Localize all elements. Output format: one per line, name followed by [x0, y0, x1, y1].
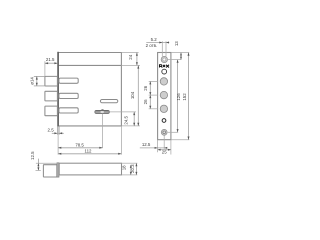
- svg-text:26: 26: [143, 85, 148, 90]
- svg-text:104: 104: [130, 91, 135, 99]
- svg-text:18: 18: [122, 165, 127, 170]
- svg-text:126: 126: [176, 93, 181, 101]
- svg-text:12.5: 12.5: [30, 151, 35, 160]
- svg-text:12.5: 12.5: [142, 142, 151, 147]
- svg-text:25: 25: [162, 149, 167, 154]
- svg-text:24: 24: [128, 54, 133, 59]
- svg-text:13: 13: [174, 41, 179, 46]
- svg-text:26: 26: [143, 99, 148, 104]
- svg-text:112: 112: [85, 148, 93, 153]
- svg-text:ø14: ø14: [29, 77, 34, 85]
- svg-text:5.2: 5.2: [151, 37, 158, 42]
- svg-text:24.5: 24.5: [123, 115, 128, 124]
- svg-text:2 отв.: 2 отв.: [146, 43, 158, 48]
- svg-text:21.5: 21.5: [46, 57, 55, 62]
- svg-text:20.3: 20.3: [130, 164, 135, 173]
- svg-text:2.5: 2.5: [48, 127, 55, 132]
- svg-text:78.5: 78.5: [75, 142, 84, 147]
- svg-text:152: 152: [182, 93, 187, 101]
